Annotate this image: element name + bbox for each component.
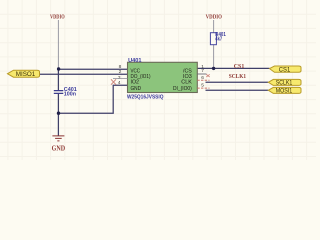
sheet background — [0, 0, 316, 160]
svg-text:MISO1: MISO1 — [16, 72, 36, 78]
svg-text:7: 7 — [201, 68, 204, 74]
svg-text:SCLK1: SCLK1 — [276, 81, 293, 87]
junction dot at GND rail — [57, 112, 60, 115]
svg-text:4: 4 — [118, 80, 121, 86]
power stem VDDIO left — [57, 20, 59, 68]
port MISO1 — [8, 70, 40, 78]
svg-text:GND: GND — [131, 86, 142, 92]
svg-text:U401: U401 — [128, 58, 141, 64]
junction dot at R401/CS — [212, 67, 215, 70]
body — [128, 62, 198, 92]
svg-text:GND: GND — [52, 144, 66, 152]
port CS1 — [270, 66, 302, 73]
pin 3 stub (no-connect) — [113, 78, 128, 80]
wire: junction to capacitor top — [57, 69, 59, 90]
svg-text:2: 2 — [119, 69, 122, 75]
wire: MISO1 port to pin2 — [40, 73, 128, 75]
power port VDDIO (left) — [50, 14, 65, 21]
pin 5 stub (red, off-wire) — [197, 87, 209, 89]
port SCLK1 — [268, 79, 301, 86]
port MOSI1 — [268, 87, 301, 94]
wire: CS pin1 to CS1 port — [197, 67, 269, 69]
svg-text:VDDIO: VDDIO — [206, 14, 222, 21]
wire: capacitor bottom to GND — [57, 93, 59, 135]
wire: pin4 GND down and left to GND rail — [58, 85, 127, 113]
resistor top lead to VDDIO right — [213, 20, 215, 33]
no-connect X on pin 3 — [111, 79, 116, 84]
svg-text:CS1: CS1 — [279, 67, 291, 73]
wire: DI to MOSI1 port — [206, 89, 269, 91]
svg-text:4k7: 4k7 — [215, 37, 222, 43]
svg-text:W25Q16JVSSIQ: W25Q16JVSSIQ — [127, 94, 164, 100]
svg-text:IO2: IO2 — [131, 80, 140, 86]
svg-text:SCLK1: SCLK1 — [229, 74, 246, 80]
junction dot at VDDIO/VCC — [57, 67, 60, 70]
svg-text:DI_(IO0): DI_(IO0) — [173, 86, 192, 92]
wire: pin8 VCC from VDDIO junction to IC — [58, 68, 127, 70]
resistor bottom lead to CS wire — [213, 45, 215, 68]
svg-text:VDDIO: VDDIO — [50, 14, 65, 21]
svg-text:CS1: CS1 — [234, 64, 245, 70]
pin 6 stub (red, off-wire) — [197, 79, 209, 81]
power port VDDIO (right) — [206, 14, 222, 21]
svg-text:CLK: CLK — [181, 80, 192, 86]
ground GND — [52, 136, 66, 153]
svg-text:100n: 100n — [64, 91, 77, 97]
no-connect X on pin 7 — [206, 74, 209, 77]
svg-text:MOSI1: MOSI1 — [276, 89, 293, 95]
pin 7 stub (no-connect) — [197, 73, 206, 75]
wire: CLK to SCLK1 port — [206, 81, 269, 83]
